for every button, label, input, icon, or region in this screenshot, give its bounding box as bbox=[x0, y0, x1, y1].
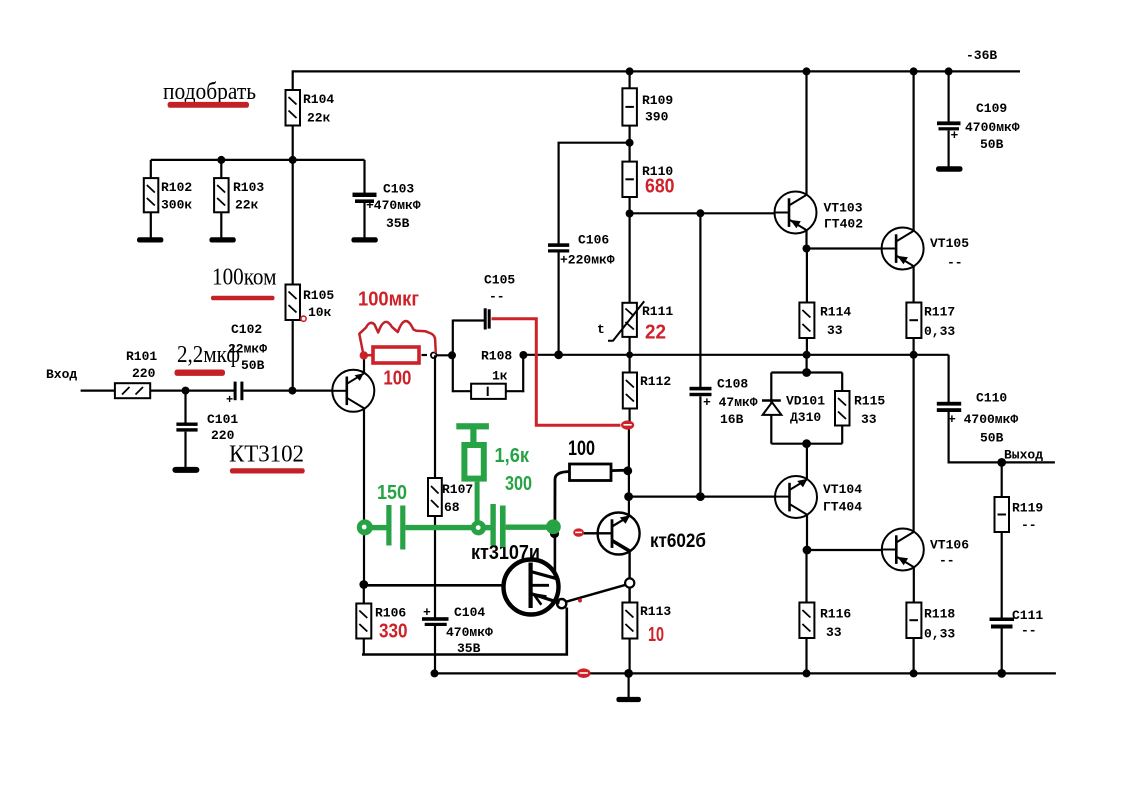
capacitor C111 bbox=[990, 608, 1044, 673]
svg-text:100: 100 bbox=[383, 368, 411, 390]
ground C109 bbox=[936, 166, 963, 171]
label green 150 bbox=[377, 482, 407, 504]
wire R101 to C102 bbox=[150, 390, 234, 392]
svg-text:390: 390 bbox=[645, 110, 669, 125]
svg-text:2,2мкф: 2,2мкф bbox=[177, 342, 240, 368]
node mid rail R114 bbox=[803, 351, 811, 359]
annotation KT3102 bbox=[229, 442, 305, 474]
svg-text:ГТ402: ГТ402 bbox=[824, 217, 863, 232]
label Vyhod output bbox=[1004, 448, 1043, 463]
resistor R110 bbox=[622, 162, 673, 197]
ground R102 bbox=[137, 237, 163, 242]
wire kt3107 collector up to node bbox=[554, 533, 557, 579]
svg-text:R119: R119 bbox=[1012, 501, 1043, 516]
wire R112 bottom to red node bbox=[628, 409, 630, 422]
wire R117 node down to VT106 collector bbox=[912, 355, 914, 532]
red terminal oval at kt602 base bbox=[573, 528, 584, 536]
svg-text:VT104: VT104 bbox=[823, 482, 862, 497]
resistor R113 bbox=[622, 603, 671, 674]
resistor R117 bbox=[906, 303, 955, 355]
svg-text:35В: 35В bbox=[457, 641, 481, 656]
annotation 100kom bbox=[211, 265, 277, 301]
svg-text:33: 33 bbox=[826, 625, 842, 640]
green wire segment 1 bbox=[372, 525, 387, 530]
svg-text:R114: R114 bbox=[820, 305, 851, 320]
transistor VT105 bbox=[882, 228, 970, 271]
resistor R119 bbox=[995, 462, 1044, 617]
resistor R118 bbox=[906, 603, 955, 674]
svg-text:VT106: VT106 bbox=[930, 538, 969, 553]
node base junction R105 bbox=[288, 387, 296, 395]
red inductor 100mkg coil bbox=[359, 321, 436, 354]
svg-text:R106: R106 bbox=[375, 606, 406, 621]
green capacitor 300 bbox=[490, 504, 505, 547]
node 100 resistor tap bbox=[623, 466, 632, 475]
svg-text:--: -- bbox=[939, 553, 955, 568]
node mid rail R117 bbox=[910, 351, 918, 359]
svg-text:R111: R111 bbox=[642, 304, 673, 319]
label red 100 bbox=[383, 368, 411, 390]
wire VD101 bottom to VT104 collector bbox=[806, 444, 808, 480]
node R108 bracket right on mid rail bbox=[519, 351, 527, 359]
svg-text:680: 680 bbox=[645, 176, 675, 198]
label green 300 bbox=[505, 473, 532, 495]
wire R104 top lead bbox=[292, 70, 294, 90]
wire R106 bottom to emitter return bbox=[362, 608, 567, 655]
wire C102 to VT101 base bbox=[243, 390, 332, 392]
svg-text:68: 68 bbox=[444, 500, 460, 515]
green middle ring bbox=[471, 520, 486, 535]
svg-text:+ 4700мкФ: + 4700мкФ bbox=[948, 412, 1018, 427]
label R113 value 10 bbox=[648, 624, 664, 646]
svg-text:16В: 16В bbox=[720, 412, 744, 427]
node top rail at R109 bbox=[626, 67, 634, 75]
label R106 value 330 bbox=[379, 621, 408, 643]
svg-text:-36В: -36В bbox=[966, 48, 997, 63]
wire input lead bbox=[81, 390, 115, 392]
node bias rail at R103 bbox=[217, 156, 225, 164]
red node dot collector bbox=[360, 351, 373, 359]
svg-text:50В: 50В bbox=[980, 431, 1004, 446]
svg-text:22к: 22к bbox=[235, 198, 259, 213]
resistor R114 bbox=[799, 249, 851, 355]
wire kt602 emitter down bbox=[628, 551, 630, 578]
junction open dot bbox=[431, 353, 437, 359]
node bottom rail C111 bbox=[997, 669, 1006, 678]
svg-text:+: + bbox=[226, 393, 233, 407]
node C108 bottom tap bbox=[696, 492, 705, 501]
green end dot bbox=[546, 519, 561, 534]
wire R109 top lead bbox=[628, 71, 630, 88]
red terminal oval at R112 bbox=[621, 420, 634, 429]
red terminal oval at bottom rail bbox=[577, 668, 591, 678]
label -36V supply bbox=[966, 48, 997, 63]
wire VT101 collector lead up bbox=[363, 356, 365, 373]
svg-text:R105: R105 bbox=[303, 288, 334, 303]
resistor R115 bbox=[835, 391, 885, 427]
svg-text:VD101: VD101 bbox=[786, 394, 825, 409]
svg-text:R107: R107 bbox=[442, 482, 473, 497]
green wire left ring bbox=[357, 519, 373, 535]
label Vhod input bbox=[46, 367, 77, 382]
svg-text:C111: C111 bbox=[1012, 608, 1043, 623]
transistor VT106 bbox=[882, 529, 969, 571]
node kt3107 collector black dot bbox=[550, 529, 559, 538]
wire VT106 emitter to R118 bbox=[913, 567, 915, 602]
svg-text:300к: 300к bbox=[161, 198, 192, 213]
svg-text:R102: R102 bbox=[161, 180, 192, 195]
transistor kt3107i hand-drawn bbox=[471, 542, 560, 615]
svg-text:1к: 1к bbox=[492, 369, 508, 384]
resistor 100 hand-drawn bbox=[555, 437, 628, 533]
svg-text:--: -- bbox=[489, 289, 505, 304]
svg-text:33: 33 bbox=[827, 323, 843, 338]
capacitor C104 bbox=[422, 605, 493, 673]
wire to VT106 base bbox=[807, 549, 882, 551]
node mid rail R111 bbox=[626, 351, 633, 358]
node top rail at C109 bbox=[945, 67, 953, 75]
wire mid rail bbox=[523, 354, 948, 356]
wire VT105 emitter to R117 bbox=[912, 266, 914, 302]
wire R104 bottom lead bbox=[292, 126, 294, 161]
svg-text:0,33: 0,33 bbox=[924, 324, 955, 339]
node bottom rail ground bbox=[624, 669, 633, 678]
svg-text:C109: C109 bbox=[976, 101, 1007, 116]
svg-text:Д310: Д310 bbox=[790, 410, 821, 425]
label green 1,6k bbox=[495, 445, 530, 467]
red resistor 100 bbox=[373, 347, 419, 363]
wire diagonal link emitter junctions bbox=[566, 585, 626, 602]
resistor R116 bbox=[799, 550, 851, 673]
svg-text:Выход: Выход bbox=[1004, 448, 1043, 463]
svg-text:1,6к: 1,6к bbox=[495, 445, 530, 467]
svg-text:0,33: 0,33 bbox=[924, 627, 955, 642]
label R110 value 680 bbox=[645, 176, 675, 198]
svg-text:C105: C105 bbox=[484, 273, 515, 288]
svg-text:10к: 10к bbox=[308, 305, 332, 320]
ground C103 bbox=[351, 237, 377, 242]
svg-text:C103: C103 bbox=[383, 182, 414, 197]
svg-text:C102: C102 bbox=[231, 322, 262, 337]
junction ring kt3107 emitter bbox=[557, 599, 566, 608]
node output bbox=[997, 458, 1006, 467]
node bias rail at R104 bbox=[289, 156, 297, 164]
svg-text:ГТ404: ГТ404 bbox=[823, 500, 862, 515]
node VD101 box bottom bbox=[802, 439, 811, 448]
svg-text:+: + bbox=[951, 128, 959, 143]
node C106 tap bbox=[626, 139, 634, 147]
svg-text:VT103: VT103 bbox=[824, 201, 863, 216]
ground R103 bbox=[209, 237, 235, 242]
node input C101 junction bbox=[182, 387, 190, 395]
svg-text:470мкФ: 470мкФ bbox=[446, 625, 493, 640]
wire R110 bottom bbox=[628, 197, 630, 303]
svg-text:100: 100 bbox=[568, 437, 595, 460]
svg-text:10: 10 bbox=[648, 624, 664, 646]
node top rail at VT103 collector bbox=[803, 67, 811, 75]
resistor R101 bbox=[115, 349, 158, 398]
svg-text:35В: 35В bbox=[386, 216, 410, 231]
svg-text:+220мкФ: +220мкФ bbox=[560, 253, 615, 268]
wire VT105 collector to rail bbox=[912, 71, 914, 231]
capacitor C106 bbox=[548, 143, 630, 355]
node VT103 base tap bbox=[626, 210, 634, 218]
svg-text:R103: R103 bbox=[233, 180, 264, 195]
svg-text:R115: R115 bbox=[854, 394, 885, 409]
node C108 tap bbox=[696, 209, 704, 217]
node VT103 emitter / VT105 base bbox=[803, 245, 811, 253]
green wire segment 2 bbox=[405, 525, 472, 530]
green capacitor 150 bbox=[386, 505, 405, 550]
node emitter to R106 base wire junction bbox=[359, 580, 368, 589]
svg-text:22к: 22к bbox=[307, 111, 331, 126]
wire red node down to kt602 collector bbox=[628, 430, 630, 516]
wire VT103 emitter down bbox=[805, 230, 807, 248]
wire VT104 base bbox=[629, 496, 775, 498]
wire kt3107 base wire bbox=[364, 584, 504, 587]
wire VT104 emitter down bbox=[806, 515, 808, 550]
svg-text:кт602б: кт602б bbox=[650, 531, 706, 552]
transistor VT102 kt602b bbox=[598, 513, 706, 555]
svg-text:+: + bbox=[423, 605, 431, 620]
red mark on diagonal link bbox=[578, 599, 582, 603]
svg-text:КТ3102: КТ3102 bbox=[229, 442, 304, 468]
svg-text:C104: C104 bbox=[454, 605, 485, 620]
svg-text:100мкг: 100мкг bbox=[358, 289, 419, 311]
svg-text:C110: C110 bbox=[976, 391, 1007, 406]
svg-text:Вход: Вход bbox=[46, 367, 77, 382]
dash segment after red resistor bbox=[422, 354, 428, 356]
wire to VT105 base bbox=[807, 247, 882, 249]
label R111 value 22 bbox=[645, 322, 666, 344]
svg-text:VT105: VT105 bbox=[930, 236, 969, 251]
svg-text:330: 330 bbox=[379, 621, 408, 643]
label red 100mkg bbox=[358, 289, 419, 311]
node R108 bracket left bbox=[448, 351, 456, 359]
node VD101 box top bbox=[802, 368, 811, 377]
resistor R104 bbox=[286, 90, 335, 126]
green wire segment 4 bbox=[506, 525, 547, 530]
svg-text:R117: R117 bbox=[924, 305, 955, 320]
node bottom rail R118 bbox=[910, 669, 918, 677]
wire bottom ground rail bbox=[435, 672, 1056, 674]
svg-text:R118: R118 bbox=[924, 607, 955, 622]
svg-text:R112: R112 bbox=[640, 374, 671, 389]
wire R107 branch vertical bbox=[434, 355, 436, 478]
ground C101 bbox=[172, 467, 199, 473]
svg-text:22: 22 bbox=[645, 322, 666, 344]
capacitor C108 bbox=[690, 213, 758, 496]
capacitor C110 bbox=[937, 355, 1019, 463]
resistor R105 bbox=[286, 160, 335, 391]
wire output rail bbox=[948, 461, 1055, 463]
svg-text:150: 150 bbox=[377, 482, 407, 504]
transistor VT103 GT402 bbox=[775, 192, 864, 234]
wire kt602 base from red node bbox=[584, 532, 598, 534]
svg-text:+470мкФ: +470мкФ bbox=[366, 198, 421, 213]
transistor VT101 KT3102 bbox=[332, 370, 374, 412]
green trimmer symbol bbox=[456, 423, 489, 521]
node bottom rail R116 bbox=[803, 669, 811, 677]
svg-text:50В: 50В bbox=[241, 358, 265, 373]
resistor R102 bbox=[144, 160, 193, 238]
red wire from C105 to R112 bottom bbox=[492, 319, 621, 426]
svg-text:R108: R108 bbox=[481, 349, 512, 364]
resistor R106 bbox=[356, 585, 406, 654]
wire ring to R113 bbox=[628, 588, 630, 603]
green wire segment 3 bbox=[484, 525, 491, 530]
svg-text:--: -- bbox=[1021, 623, 1037, 638]
svg-text:R104: R104 bbox=[303, 92, 334, 107]
resistor R112 bbox=[623, 373, 672, 409]
transistor VT104 GT404 bbox=[775, 476, 862, 518]
node bottom rail C104 bbox=[431, 669, 439, 677]
svg-text:100ком: 100ком bbox=[212, 265, 277, 291]
annotation podobrat bbox=[163, 79, 256, 108]
node VT104 emitter / VT106 base bbox=[803, 546, 812, 555]
capacitor C105 bbox=[453, 273, 516, 330]
capacitor C103 bbox=[353, 160, 421, 238]
svg-text:t: t bbox=[597, 322, 605, 337]
svg-text:R101: R101 bbox=[126, 349, 157, 364]
ground main bbox=[616, 673, 641, 702]
wire R109 to R110 bbox=[628, 126, 630, 162]
wire bias rail y160 bbox=[151, 159, 365, 161]
svg-text:C106: C106 bbox=[578, 233, 609, 248]
wire stub to R108 bracket bbox=[437, 354, 453, 356]
svg-text:50В: 50В bbox=[980, 137, 1004, 152]
wire mid rail to VD101 box bbox=[805, 355, 807, 373]
resistor R103 bbox=[214, 160, 264, 238]
svg-text:--: -- bbox=[947, 255, 963, 270]
wire R111 bottom bbox=[628, 337, 630, 373]
resistor R111 thermistor bbox=[597, 301, 673, 341]
annotation 2,2mkf bbox=[175, 342, 241, 376]
wire top supply rail bbox=[293, 70, 1020, 72]
svg-text:--: -- bbox=[1021, 518, 1037, 533]
red small ring near R105 bbox=[301, 316, 306, 321]
svg-text:33: 33 bbox=[861, 412, 877, 427]
svg-text:подобрать: подобрать bbox=[163, 79, 256, 105]
svg-text:R113: R113 bbox=[640, 604, 671, 619]
node top rail at VT105 collector bbox=[910, 67, 918, 75]
wire R107 to C104 bbox=[434, 516, 436, 618]
diode VD101 box bbox=[762, 373, 842, 444]
svg-text:C108: C108 bbox=[717, 377, 748, 392]
wire VT103 collector to rail bbox=[805, 71, 807, 194]
svg-text:220: 220 bbox=[132, 366, 156, 381]
resistor R109 bbox=[622, 88, 673, 125]
resistor R107 bbox=[428, 478, 473, 516]
wire VT103 base bbox=[630, 212, 775, 214]
node mid rail C106 bbox=[554, 350, 563, 359]
capacitor C101 bbox=[176, 391, 238, 468]
capacitor C109 bbox=[937, 71, 1020, 166]
svg-text:4700мкФ: 4700мкФ bbox=[965, 120, 1020, 135]
svg-text:R116: R116 bbox=[820, 607, 851, 622]
svg-text:R109: R109 bbox=[642, 93, 673, 108]
svg-text:C101: C101 bbox=[207, 412, 238, 427]
svg-text:+ 47мкФ: + 47мкФ bbox=[703, 395, 758, 410]
wire VT101 emitter lead down bbox=[363, 408, 365, 584]
capacitor C102 bbox=[226, 322, 267, 407]
junction ring kt602 emitter bbox=[625, 578, 634, 587]
node VT104 base tap bbox=[624, 492, 633, 501]
resistor R108 bbox=[453, 320, 524, 399]
svg-text:300: 300 bbox=[505, 473, 532, 495]
